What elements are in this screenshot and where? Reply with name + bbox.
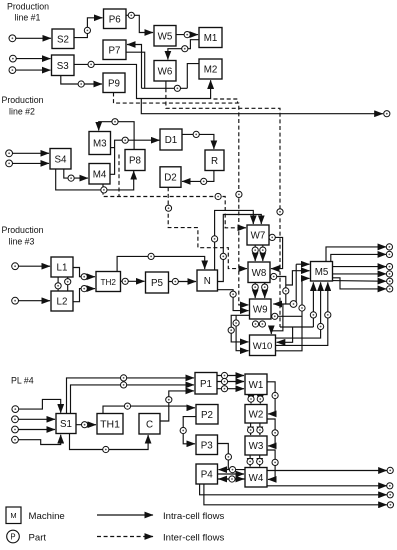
wire W4 long out 1 xyxy=(267,470,387,472)
machine S4 xyxy=(50,149,71,170)
part input d PL4 xyxy=(12,436,19,443)
wire up to M5 bottom a xyxy=(312,282,314,327)
wire input to S3 upper xyxy=(16,58,51,60)
svg-text:C: C xyxy=(146,419,153,430)
wire W2 to W3 right loop xyxy=(267,419,275,446)
machine W4 xyxy=(245,468,267,488)
svg-text:line #3: line #3 xyxy=(9,237,35,247)
wire L1-L2 link b xyxy=(67,277,69,291)
part on W2-W3 a xyxy=(248,427,254,433)
wire P4 to W4 xyxy=(218,473,245,475)
wire W4 long out 2 xyxy=(267,485,387,487)
part on TH2-N xyxy=(148,253,154,259)
part on W9 right input xyxy=(290,301,297,308)
part on P1-W1 a xyxy=(221,372,227,378)
machine W6 xyxy=(154,61,176,82)
part on R-D2 xyxy=(201,178,207,184)
wire into W9 right xyxy=(273,264,296,304)
wire C to P1 xyxy=(160,391,194,421)
svg-text:W6: W6 xyxy=(158,66,173,77)
part on W2 loop xyxy=(272,430,278,436)
part M5 out 1 xyxy=(386,244,392,250)
part on W9-W10 a xyxy=(252,321,258,327)
machine P6 xyxy=(104,9,127,29)
part on P1-W1 b xyxy=(221,378,227,384)
wire branch long arrow to right output xyxy=(141,99,383,114)
wire L2 to TH2 xyxy=(73,289,95,302)
svg-text:Inter-cell flows: Inter-cell flows xyxy=(163,533,225,544)
machine N xyxy=(197,270,218,291)
wire input to S4 upper xyxy=(12,152,49,154)
part on W5-M1 xyxy=(184,31,190,37)
part on S1-P1 a xyxy=(121,375,127,381)
wire M3 right stub xyxy=(111,147,115,149)
part input a PL2 xyxy=(6,150,13,157)
wire M5 out 1 xyxy=(326,247,386,262)
wire S1 to C bottom xyxy=(70,434,149,450)
wire P4-W4 lower b xyxy=(219,478,245,480)
part on W4-P4 xyxy=(229,467,235,473)
dashed M4 to W7 xyxy=(103,184,246,228)
machine W1 xyxy=(245,374,267,395)
wire up to M2 left xyxy=(187,64,199,89)
wire W1-W2 link a xyxy=(250,395,252,404)
machine S2 xyxy=(52,29,74,49)
part input c PL1 xyxy=(9,67,16,74)
machine W2 xyxy=(245,405,267,424)
svg-text:P: P xyxy=(10,533,15,542)
machine M4 xyxy=(89,164,110,185)
wire W7 to W8 right loop xyxy=(269,237,283,268)
part on N-W7 a xyxy=(212,236,218,242)
svg-text:M4: M4 xyxy=(93,169,107,180)
wire P2 to P3 xyxy=(183,417,196,444)
wire input2 to S1 xyxy=(18,418,55,420)
part on D1-R xyxy=(193,131,199,137)
part M5 out 4 xyxy=(386,271,392,277)
part on C-P1 xyxy=(166,397,172,403)
part out W4 b xyxy=(387,483,393,489)
svg-text:M: M xyxy=(10,511,16,520)
part on P1-W1 c xyxy=(221,386,227,392)
svg-text:S1: S1 xyxy=(60,419,72,430)
part on N-W9 xyxy=(230,291,236,297)
wire S1 to TH1 xyxy=(76,424,96,426)
machine S1 xyxy=(56,414,76,434)
wire W8-W9 link a xyxy=(254,283,256,299)
part on M1-W6 xyxy=(182,46,188,52)
wire M5 out 2 xyxy=(331,254,387,261)
svg-text:L2: L2 xyxy=(57,297,68,308)
dashed step near M2 xyxy=(214,99,238,103)
svg-text:P3: P3 xyxy=(201,440,214,451)
part on dashed M4-W7 xyxy=(215,193,221,199)
wire M5 out 4 xyxy=(333,273,387,275)
part input b PL4 xyxy=(12,416,19,423)
part on L1-TH2 xyxy=(81,274,87,280)
part on W10-M5 c xyxy=(325,312,331,318)
wire M5 out 3 xyxy=(333,266,387,268)
wire S1 to P1 a xyxy=(67,378,195,414)
part input b PL1 xyxy=(10,55,17,62)
wire input to S3 lower xyxy=(16,69,51,71)
svg-text:Production: Production xyxy=(7,2,49,12)
wire S3 to P9 xyxy=(61,76,102,85)
svg-text:Production: Production xyxy=(1,225,43,235)
part on dashed P9-W9 xyxy=(236,191,242,197)
wire TH1 to P2 xyxy=(103,406,195,413)
part on L1-L2 a xyxy=(55,283,61,289)
wire input to L1 xyxy=(18,265,50,267)
svg-text:P4: P4 xyxy=(201,470,214,481)
part on S4-P8 xyxy=(101,187,107,193)
wire input to L2 xyxy=(18,300,50,302)
wire W3 to W4 right loop xyxy=(267,450,275,479)
wire S4 to P8 bottom xyxy=(56,169,134,190)
part on M4-D1 xyxy=(122,137,128,143)
wire W1 to W2 right loop xyxy=(267,382,275,414)
wire W7-W8 link a xyxy=(254,245,256,261)
part on W7-W8 b xyxy=(260,247,266,253)
svg-text:M3: M3 xyxy=(93,139,107,150)
machine W5 xyxy=(154,26,176,47)
wire P1 to W1 a xyxy=(217,375,244,377)
machine D2 xyxy=(160,167,181,188)
machine W10 xyxy=(250,335,276,356)
svg-text:S4: S4 xyxy=(55,154,68,165)
svg-text:Machine: Machine xyxy=(29,511,65,522)
machine TH2 xyxy=(96,272,121,292)
wire S2 to P6 xyxy=(74,18,103,38)
wire W6 bottom stub xyxy=(165,81,167,88)
wire P1 to W1 c xyxy=(217,388,244,390)
svg-text:P7: P7 xyxy=(109,45,121,56)
svg-text:N: N xyxy=(204,276,211,287)
wire W10 to M5 lower xyxy=(276,278,310,350)
svg-text:R: R xyxy=(211,156,218,167)
wire W3-W4 link a xyxy=(249,455,251,467)
wire M4 to D1 xyxy=(110,140,160,174)
svg-text:P9: P9 xyxy=(108,78,120,89)
legend part circle xyxy=(7,530,20,543)
machine M1 xyxy=(199,28,222,48)
wire N to W7 second xyxy=(218,215,262,282)
legend machine box xyxy=(6,507,21,524)
part M5 out 5 xyxy=(387,278,393,284)
svg-text:Intra-cell flows: Intra-cell flows xyxy=(163,511,225,522)
wire S1 to P1 b xyxy=(71,385,195,414)
wire P6 to W5 xyxy=(126,15,153,32)
wire N to W9 xyxy=(218,290,249,311)
part on P4-W4 xyxy=(229,476,235,482)
svg-text:line #2: line #2 xyxy=(9,107,35,117)
wire W9 left loop to W10 lower xyxy=(236,315,248,350)
part on W7 loop xyxy=(269,234,275,240)
part on L1-L2 b xyxy=(65,279,71,285)
wire W9 left loop to W10 upper xyxy=(231,315,249,342)
machine W9 xyxy=(250,299,272,319)
wire P3 down to P4-W4 junction xyxy=(218,444,229,470)
wire W2-W3 link b xyxy=(259,423,261,435)
part on W9-W10 left a xyxy=(233,320,239,326)
svg-text:P2: P2 xyxy=(201,410,213,421)
svg-text:PL #4: PL #4 xyxy=(11,376,34,386)
svg-text:L1: L1 xyxy=(57,263,68,274)
part on S1-TH1 xyxy=(82,422,88,428)
wire P5 to N xyxy=(169,281,197,283)
machine M2 xyxy=(199,59,222,79)
part on W10-M5 riser xyxy=(299,305,305,311)
wire to M5 upper xyxy=(296,263,309,265)
part M5 out 6 xyxy=(387,286,393,292)
machine M5 xyxy=(311,262,333,282)
wire W1-W2 link b xyxy=(259,395,261,404)
wire TH2 to P5 xyxy=(121,280,145,282)
part on W6 junction xyxy=(174,85,180,91)
wire W5 to M1 xyxy=(176,34,198,36)
part on W10-M5 b xyxy=(318,323,324,329)
wire W10 to M5 bottom b xyxy=(276,282,321,338)
wire L1-L2 link a xyxy=(57,277,59,291)
part input b PL2 xyxy=(6,160,13,167)
part on L2-TH2 xyxy=(81,286,87,292)
part on P3 route xyxy=(225,454,231,460)
wire P4 long out 4 xyxy=(204,484,387,505)
svg-text:P1: P1 xyxy=(200,379,212,390)
part on W3 loop xyxy=(272,459,278,465)
machine P1 xyxy=(195,373,217,395)
wire D1 to R xyxy=(182,134,214,149)
part on TH2-P5 xyxy=(122,278,128,284)
part input c PL4 xyxy=(12,426,19,433)
svg-text:TH1: TH1 xyxy=(100,418,120,430)
part M5 out 2 xyxy=(386,251,392,257)
svg-text:W4: W4 xyxy=(249,473,264,484)
part input a PL4 xyxy=(12,406,19,413)
svg-text:S3: S3 xyxy=(57,61,70,72)
wire W6 junction horizontal xyxy=(142,87,188,89)
part on W9-W10 b xyxy=(259,321,265,327)
machine P5 xyxy=(146,272,169,293)
wire P4 input to S2 xyxy=(16,37,52,39)
svg-text:P5: P5 xyxy=(151,278,164,289)
wire input3 to S1 xyxy=(18,429,55,431)
wire TH2 top to N xyxy=(117,256,205,271)
part out P4 xyxy=(387,492,393,498)
wire P1 to W1 b xyxy=(217,381,244,383)
dashed M3 stub xyxy=(118,155,120,197)
part input a PL1 xyxy=(9,35,16,42)
machine W8 xyxy=(248,262,270,283)
part on W8-M5 riser xyxy=(283,288,289,294)
machine W7 xyxy=(247,225,269,245)
wire W8 down riser xyxy=(270,277,286,305)
legend inter-cell arrow xyxy=(97,536,153,538)
machine C xyxy=(139,414,160,435)
part on P6-W5 xyxy=(128,12,134,18)
wire input4 to S1 bottom xyxy=(19,435,61,445)
machine M3 xyxy=(89,132,111,155)
part on W8-M5 xyxy=(271,273,277,279)
part on P5-N xyxy=(172,278,178,284)
svg-text:W5: W5 xyxy=(158,31,173,42)
part out P3 xyxy=(387,502,393,508)
part M5 out 3 xyxy=(386,264,392,270)
part on W10-M5 a xyxy=(310,312,316,318)
wire W10 to M5 bottom c xyxy=(276,282,328,345)
wire P8 top to M3 xyxy=(99,122,134,150)
svg-text:W7: W7 xyxy=(251,231,266,242)
wire M5 out 5 xyxy=(333,280,387,283)
svg-text:S2: S2 xyxy=(57,34,69,45)
svg-text:W8: W8 xyxy=(252,268,267,279)
svg-text:TH2: TH2 xyxy=(101,278,117,287)
part on S3-P9 xyxy=(78,81,84,87)
dashed P9 to W9 xyxy=(114,93,249,305)
machine R xyxy=(205,150,224,171)
machine TH1 xyxy=(97,414,123,435)
svg-text:D2: D2 xyxy=(164,173,177,184)
svg-text:W1: W1 xyxy=(249,380,264,391)
part on S1-P1 b xyxy=(121,382,127,388)
wire down into W10 top xyxy=(271,304,283,334)
svg-text:W2: W2 xyxy=(249,409,264,420)
part on S1-C xyxy=(103,446,109,452)
part on S2-P6 xyxy=(84,27,90,33)
wire P4 long out 3 xyxy=(200,484,387,495)
wire M1 to W6 xyxy=(168,40,199,60)
wire into P7 right xyxy=(127,45,142,89)
wire W9 right to junction xyxy=(271,315,302,317)
svg-text:P6: P6 xyxy=(109,14,122,25)
part on W1 loop xyxy=(272,392,278,398)
part on dashed W6-W10 xyxy=(277,209,283,215)
svg-text:line #1: line #1 xyxy=(15,13,41,23)
wire input to S4 lower xyxy=(12,162,49,164)
wire W8-W9 link b xyxy=(264,283,266,299)
wire P7 out down xyxy=(126,52,145,88)
svg-text:Production: Production xyxy=(1,95,43,105)
part on TH1-P2 xyxy=(124,403,130,409)
part on dashed D2-W8 xyxy=(165,205,171,211)
wire input1 to S1 top xyxy=(19,399,61,412)
svg-text:W3: W3 xyxy=(249,441,264,452)
part on W9-W10 left b xyxy=(228,327,234,333)
part on P8-M3 xyxy=(112,119,118,125)
part on N-W7 b xyxy=(220,253,226,259)
part on S4-M4 xyxy=(68,175,74,181)
part on P2-P3 xyxy=(180,427,186,433)
svg-text:M1: M1 xyxy=(204,33,218,44)
wire R to D2 xyxy=(182,171,214,182)
svg-text:P8: P8 xyxy=(129,156,142,167)
part on W8-W9 b xyxy=(262,284,268,290)
svg-text:Part: Part xyxy=(29,533,47,544)
wire S4 to M4 xyxy=(64,169,88,178)
machine D1 xyxy=(160,129,182,150)
wire N to W7 first xyxy=(215,210,254,270)
machine P3 xyxy=(196,435,218,455)
machine L1 xyxy=(51,257,73,277)
part on W3-W4 b xyxy=(257,458,263,464)
part on W7-W8 a xyxy=(252,247,258,253)
machine P8 xyxy=(125,150,145,171)
machine S3 xyxy=(52,55,75,76)
wire junction horizontal W10 area xyxy=(280,326,313,328)
part on S3-M2 xyxy=(88,61,94,67)
machine W3 xyxy=(245,436,267,455)
svg-text:M2: M2 xyxy=(204,65,218,76)
wire W4 to P4 upper xyxy=(219,469,245,471)
part input L2 xyxy=(12,297,19,304)
svg-text:W10: W10 xyxy=(253,341,273,352)
wire P4-W4 lower a xyxy=(218,478,245,480)
part on W9 right xyxy=(272,313,278,319)
wire M5 out 6 xyxy=(333,278,387,289)
machine P7 xyxy=(103,40,126,60)
svg-text:W9: W9 xyxy=(253,305,268,316)
wire W7-W8 link b xyxy=(262,245,264,261)
svg-text:D1: D1 xyxy=(165,135,178,146)
wire W2-W3 link a xyxy=(250,423,252,435)
wire W3-W4 link b xyxy=(259,455,261,467)
part on W3-W4 a xyxy=(247,458,253,464)
part on W1-W2 b xyxy=(257,396,263,402)
legend intra-cell arrow xyxy=(97,514,153,516)
dashed D2 to W8 xyxy=(168,187,247,268)
machine P2 xyxy=(196,405,218,425)
wire L1 to TH2 xyxy=(73,268,95,277)
part on W2-W3 b xyxy=(257,427,263,433)
part output top right xyxy=(384,111,390,117)
dashed W6 down right side xyxy=(166,88,280,327)
machine P4 xyxy=(196,464,218,484)
part on W1-W2 a xyxy=(248,396,254,402)
part out W4 a xyxy=(387,467,393,473)
wire into W10 right xyxy=(277,327,293,342)
wire S3 to M2 bottom xyxy=(74,64,211,98)
wire riser to M5 mid xyxy=(286,271,310,285)
svg-text:M5: M5 xyxy=(315,267,329,278)
part on W8-W9 a xyxy=(252,284,258,290)
part input L1 xyxy=(12,263,19,270)
machine P9 xyxy=(103,73,125,93)
machine L2 xyxy=(51,291,73,311)
